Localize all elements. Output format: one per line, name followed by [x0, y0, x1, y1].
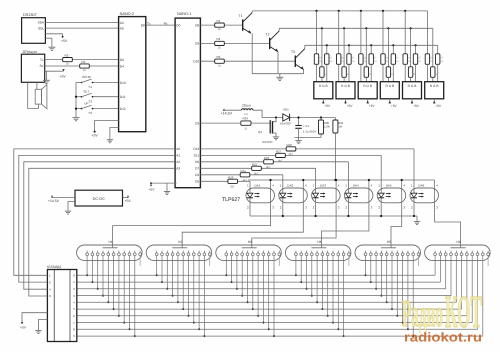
svg-text:D11: D11	[194, 154, 200, 158]
svg-text:IRF3205: IRF3205	[262, 140, 273, 144]
svg-text:R3: R3	[217, 55, 221, 59]
svg-text:+5V: +5V	[347, 104, 354, 108]
svg-text:T3: T3	[291, 50, 295, 54]
svg-text:D13: D13	[193, 147, 199, 151]
svg-text:UP: UP	[84, 101, 88, 105]
svg-text:R1: R1	[217, 19, 221, 23]
svg-text:R25: R25	[252, 162, 258, 166]
svg-text:4.7µx350V: 4.7µx350V	[303, 129, 317, 133]
svg-text:Rx: Rx	[40, 64, 44, 68]
svg-text:A0: A0	[176, 147, 180, 151]
svg-text:Q4: Q4	[258, 130, 262, 134]
svg-text:R2: R2	[65, 54, 69, 58]
svg-text:R27: R27	[276, 149, 282, 153]
svg-text:+5V: +5V	[125, 199, 132, 203]
svg-text:+5V: +5V	[391, 104, 398, 108]
svg-text:1M: 1M	[338, 125, 343, 129]
svg-text:Rx: Rx	[164, 22, 168, 26]
svg-text:220µH: 220µH	[242, 104, 251, 108]
svg-text:D5: D5	[195, 180, 199, 184]
svg-text:D11: D11	[120, 95, 126, 99]
svg-text:R G B: R G B	[385, 84, 394, 88]
svg-text:T1: T1	[239, 14, 243, 18]
svg-text:D4: D4	[195, 173, 199, 177]
svg-text:R23: R23	[228, 175, 234, 179]
svg-text:S3: S3	[89, 111, 93, 115]
svg-text:D4: D4	[120, 64, 124, 68]
svg-text:VD1: VD1	[283, 108, 289, 112]
svg-text:+5V: +5V	[149, 188, 156, 192]
svg-text:R34: R34	[243, 117, 249, 121]
svg-text:DA6: DA6	[419, 183, 425, 187]
svg-text:R28: R28	[287, 143, 293, 147]
svg-text:D10: D10	[193, 60, 199, 64]
svg-text:NANO-1: NANO-1	[177, 12, 191, 16]
svg-text:HER308: HER308	[280, 122, 291, 126]
svg-text:R G B: R G B	[319, 84, 328, 88]
svg-text:SDL: SDL	[38, 26, 44, 30]
svg-text:+14.5V: +14.5V	[48, 199, 60, 203]
svg-text:OCHB: OCHB	[82, 75, 91, 79]
svg-text:A3: A3	[176, 167, 180, 171]
svg-text:2w: 2w	[396, 60, 399, 63]
svg-text:К155ИД1: К155ИД1	[47, 265, 61, 269]
svg-text:R26: R26	[264, 156, 270, 160]
svg-text:S2: S2	[89, 99, 93, 103]
svg-text:+ C1: + C1	[303, 124, 310, 128]
svg-text:2w: 2w	[329, 60, 332, 63]
svg-text:DA3: DA3	[320, 183, 326, 187]
svg-text:2w: 2w	[440, 60, 443, 63]
svg-text:DA5: DA5	[386, 183, 392, 187]
svg-text:+5V: +5V	[92, 134, 99, 138]
svg-text:R3: R3	[82, 60, 86, 64]
svg-text:H5: H5	[387, 240, 391, 244]
svg-text:+5V: +5V	[435, 104, 442, 108]
svg-text:H4: H4	[317, 240, 321, 244]
svg-text:D10: D10	[120, 81, 126, 85]
svg-text:+5V: +5V	[60, 75, 67, 79]
svg-text:SET: SET	[83, 89, 89, 93]
svg-text:Tx: Tx	[40, 58, 44, 62]
svg-text:R24: R24	[241, 169, 247, 173]
svg-text:A5: A5	[120, 26, 124, 30]
svg-text:DA4: DA4	[353, 183, 359, 187]
svg-text:D7: D7	[195, 167, 199, 171]
svg-text:D6: D6	[195, 160, 199, 164]
svg-text:+5V: +5V	[20, 325, 27, 329]
svg-text:A2: A2	[176, 160, 180, 164]
svg-text:H1: H1	[109, 240, 113, 244]
svg-text:D3: D3	[195, 121, 199, 125]
svg-text:120k: 120k	[324, 125, 331, 129]
svg-text:A4: A4	[120, 21, 124, 25]
svg-text:D8: D8	[141, 23, 145, 27]
svg-text:+5V: +5V	[61, 39, 68, 43]
svg-text:2w: 2w	[418, 60, 421, 63]
svg-text:DC-DC: DC-DC	[93, 197, 105, 201]
svg-text:R G B: R G B	[408, 84, 417, 88]
svg-text:+5V: +5V	[369, 104, 376, 108]
svg-text:DS1307: DS1307	[23, 13, 37, 17]
svg-text:D9: D9	[120, 58, 124, 62]
svg-text:A1: A1	[176, 154, 180, 158]
svg-text:D8: D8	[195, 23, 199, 27]
svg-text:D12: D12	[120, 107, 126, 111]
svg-text:H6: H6	[457, 240, 461, 244]
svg-text:T2: T2	[266, 32, 270, 36]
svg-text:+5V: +5V	[324, 104, 331, 108]
svg-text:H2: H2	[178, 240, 182, 244]
svg-text:R G B: R G B	[341, 84, 350, 88]
svg-text:+5V: +5V	[413, 104, 420, 108]
svg-text:radiokot.ru: radiokot.ru	[404, 330, 482, 345]
svg-text:4k7: 4k7	[230, 185, 235, 189]
svg-text:DA1: DA1	[255, 183, 261, 187]
svg-text:D9: D9	[195, 42, 199, 46]
svg-text:H3: H3	[248, 240, 252, 244]
svg-text:R G B: R G B	[363, 84, 372, 88]
svg-text:R G B: R G B	[430, 84, 439, 88]
svg-text:2w: 2w	[374, 60, 377, 63]
svg-text:+14.5V: +14.5V	[221, 112, 233, 116]
svg-text:TLP627: TLP627	[222, 197, 240, 203]
svg-text:2w: 2w	[352, 60, 355, 63]
svg-text:NANO-2: NANO-2	[120, 12, 134, 16]
svg-text:L1: L1	[245, 112, 249, 116]
svg-text:DFplayer: DFplayer	[23, 50, 38, 54]
svg-text:DA2: DA2	[287, 183, 293, 187]
svg-text:R2: R2	[217, 37, 221, 41]
svg-text:D0: D0	[176, 23, 180, 27]
svg-text:51: 51	[245, 127, 249, 131]
svg-text:SDA: SDA	[38, 21, 45, 25]
